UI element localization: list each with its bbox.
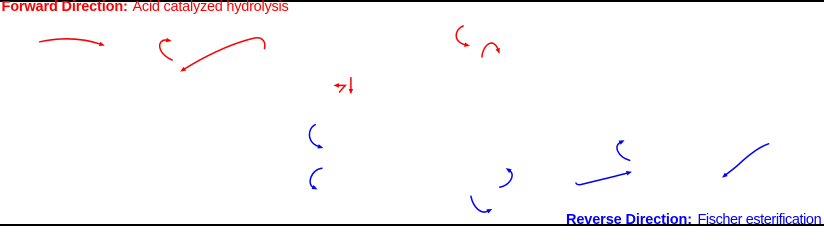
label: Reverse Direction heading bold part (blue) <box>566 213 692 228</box>
red zigzag left arrow <box>338 85 345 92</box>
black rule top edge <box>0 0 824 2</box>
blue far-right S arrow <box>726 144 769 175</box>
blue curved arrow 1: C open-right upper <box>309 125 319 147</box>
black rule bottom edge <box>0 224 824 226</box>
blue curved arrow 4: J hook <box>500 171 512 188</box>
red curved arrow 1: shallow arc top-left <box>40 39 101 44</box>
blue curved arrow 5: C open-right far <box>617 142 630 160</box>
blue curved arrow 2: C open-right lower <box>310 168 322 187</box>
label: Forward Direction heading regular part (red) <box>133 0 289 14</box>
red straight down arrow <box>350 78 352 90</box>
red curved arrow 4: C open-right top-center <box>456 26 465 45</box>
label: Forward Direction heading bold part (red) <box>2 0 128 14</box>
blue curved arrow 3: U smile <box>471 196 488 212</box>
label: Reverse Direction heading regular part (blue) <box>698 213 822 228</box>
red curved arrow 3: long S sweep <box>184 38 265 69</box>
blue long arrow with start hook <box>576 173 628 185</box>
red curved arrow 2: C-hook <box>160 40 173 60</box>
red curved arrow 5: small arch <box>482 43 498 57</box>
